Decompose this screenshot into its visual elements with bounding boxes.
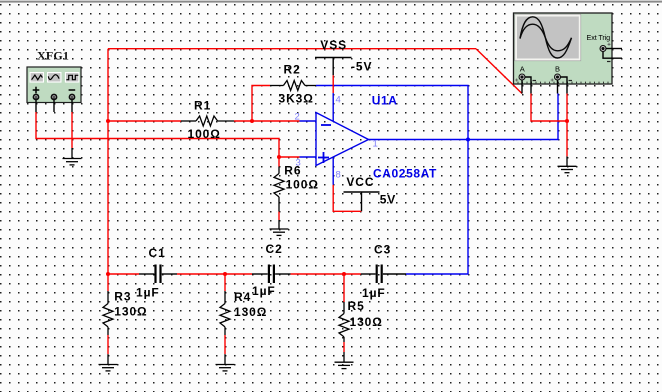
node junction op-amp pin3 / R6	[277, 155, 281, 159]
power VSS -5V	[315, 38, 372, 75]
ground below R3	[99, 354, 118, 371]
wire R4 bottom to ground	[224, 335, 226, 354]
svg-text:CA0258AT: CA0258AT	[373, 166, 437, 180]
svg-text:C2: C2	[266, 242, 283, 256]
op-amp U1A CA0258AT	[295, 93, 438, 185]
svg-text:3K3Ω: 3K3Ω	[279, 91, 314, 105]
oscilloscope XSC1	[514, 13, 623, 94]
svg-text:100Ω: 100Ω	[286, 178, 319, 192]
wire R3 top	[107, 274, 109, 291]
capacitor C2 1uF	[252, 242, 291, 298]
resistor R1 100ohm	[181, 99, 234, 141]
svg-text:R1: R1	[194, 99, 211, 113]
terminal A	[515, 74, 536, 94]
wire op-amp pin8 to VCC	[333, 185, 361, 212]
node blue junction output/feedback	[466, 138, 470, 142]
wire blue feedback net: R2 right, down through output node to C3 right	[316, 86, 468, 275]
svg-text:R3: R3	[114, 289, 131, 303]
wire XFG1 minus to ground	[71, 112, 73, 148]
svg-text:5V: 5V	[380, 192, 396, 206]
resistor R3 130ohm	[103, 289, 148, 335]
wire pin3 red segment	[279, 156, 300, 158]
ground below XFG1 minus	[63, 148, 82, 165]
resistor R5 130ohm	[339, 299, 383, 342]
wire R1 row	[108, 120, 300, 122]
wire top red net from left vertical to scope A	[108, 49, 522, 274]
wire R6 top	[278, 157, 280, 167]
ground below R4	[216, 354, 235, 371]
ground below scope B minus	[558, 156, 577, 172]
svg-text:130Ω: 130Ω	[350, 315, 383, 329]
function generator XFG1	[27, 49, 81, 113]
wire blue op-amp output to scope B	[369, 94, 559, 140]
svg-text:2: 2	[295, 112, 300, 123]
svg-text:R5: R5	[348, 299, 365, 313]
svg-text:4: 4	[336, 95, 341, 106]
svg-text:R4: R4	[234, 290, 251, 304]
node junction scope ground	[565, 119, 569, 123]
resistor R2 3K3ohm	[270, 63, 316, 106]
svg-text:130Ω: 130Ω	[234, 305, 267, 319]
terminal Ext Trig	[600, 43, 623, 62]
node junction R4	[223, 272, 227, 276]
svg-text:C3: C3	[374, 243, 391, 257]
svg-text:100Ω: 100Ω	[188, 127, 221, 141]
wire R5 bottom to ground	[343, 342, 345, 352]
svg-text:B: B	[555, 64, 560, 73]
wire R4 top	[224, 274, 226, 291]
svg-text:8: 8	[336, 170, 341, 181]
ground below R5	[335, 352, 354, 369]
svg-text:R2: R2	[284, 63, 301, 77]
svg-text:-5V: -5V	[351, 60, 372, 74]
svg-text:1: 1	[373, 139, 378, 150]
svg-text:VSS: VSS	[320, 38, 347, 52]
svg-text:A: A	[520, 64, 525, 73]
svg-text:130Ω: 130Ω	[114, 305, 147, 319]
wire VSS to op-amp pin4	[332, 75, 334, 93]
node junction R5	[342, 272, 346, 276]
wire R5 top	[343, 274, 345, 302]
wire R3 bottom to ground	[107, 335, 109, 354]
capacitor C1 1uF	[136, 246, 177, 300]
capacitor C3 1uF	[361, 243, 406, 301]
terminal B	[551, 74, 572, 94]
svg-text:C1: C1	[149, 246, 166, 260]
wire R2 left branch	[252, 86, 270, 122]
wire scope B minus down to ground	[566, 94, 568, 157]
wire scope A minus to ground junction	[531, 94, 567, 122]
wire XFG1 plus output to op-amp pin3	[36, 112, 279, 157]
svg-text:1µF: 1µF	[362, 286, 386, 300]
svg-text:1µF: 1µF	[252, 284, 276, 298]
svg-text:U1A: U1A	[372, 94, 398, 108]
svg-text:1µF: 1µF	[136, 286, 160, 300]
svg-text:XFG1: XFG1	[37, 49, 69, 63]
ground below R6	[270, 220, 289, 235]
wire R6 bottom to ground	[278, 212, 280, 220]
svg-text:3: 3	[296, 158, 301, 169]
node junction at R1 left	[106, 119, 110, 123]
wire bottom row red segments	[108, 273, 361, 275]
svg-text:VCC: VCC	[346, 175, 374, 189]
resistor R6 100ohm	[274, 164, 319, 212]
resistor R4 130ohm	[220, 290, 267, 335]
node junction R2 branch	[250, 119, 254, 123]
svg-text:Ext Trig: Ext Trig	[587, 33, 611, 42]
power VCC 5V	[344, 175, 397, 211]
node junction bottom left	[106, 272, 110, 276]
